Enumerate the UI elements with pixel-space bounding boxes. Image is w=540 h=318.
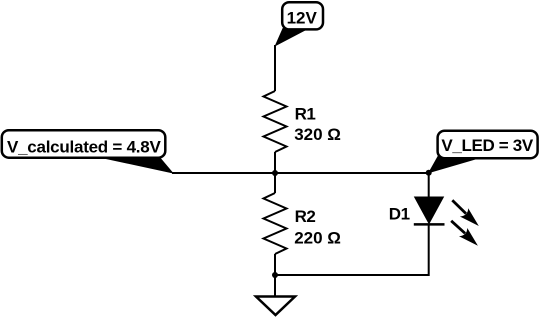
resistor R2: [264, 193, 287, 254]
LED light arrow 1: [452, 200, 479, 226]
wire main horizontal node A: [172, 172, 429, 174]
ground: [256, 275, 295, 315]
wire bottom horizontal to LED cathode: [275, 225, 429, 276]
junction node B LED anode: [426, 170, 432, 176]
svg-text:R2: R2: [295, 207, 316, 226]
svg-text:R1: R1: [295, 105, 316, 124]
value 320 ohm: [294, 125, 341, 144]
net label V_LED text: [441, 136, 533, 155]
svg-text:V_calculated = 4.8V: V_calculated = 4.8V: [7, 137, 161, 156]
net label 12V box: [282, 2, 323, 29]
junction bottom node: [272, 272, 278, 278]
junction node A: [272, 170, 278, 176]
net label 12V text: [287, 9, 318, 28]
net label V_LED tail: [429, 157, 477, 173]
net label V_calculated text: [7, 137, 161, 156]
label R2: [295, 207, 316, 226]
label D1: [389, 205, 410, 224]
net label V_calculated box: [2, 130, 166, 158]
label R1: [295, 105, 316, 124]
net label V_calculated tail: [92, 156, 173, 173]
svg-text:320 Ω: 320 Ω: [294, 125, 341, 144]
net label 12V tail: [276, 29, 307, 46]
LED D1: [414, 197, 445, 224]
LED light arrow 2: [451, 221, 478, 246]
svg-text:D1: D1: [389, 205, 410, 224]
wire from R1 to node A: [274, 152, 276, 173]
value 220 ohm: [294, 229, 341, 248]
svg-text:220 Ω: 220 Ω: [294, 229, 341, 248]
wire from R2 to bottom node: [274, 254, 276, 275]
svg-text:12V: 12V: [287, 9, 318, 28]
resistor R1: [264, 91, 287, 152]
wire from node B down to LED: [428, 173, 430, 198]
wire from 12V source down to R1: [274, 45, 276, 91]
svg-text:V_LED = 3V: V_LED = 3V: [441, 136, 533, 155]
net label V_LED box: [438, 131, 538, 159]
wire from node A down to R2: [274, 173, 276, 193]
